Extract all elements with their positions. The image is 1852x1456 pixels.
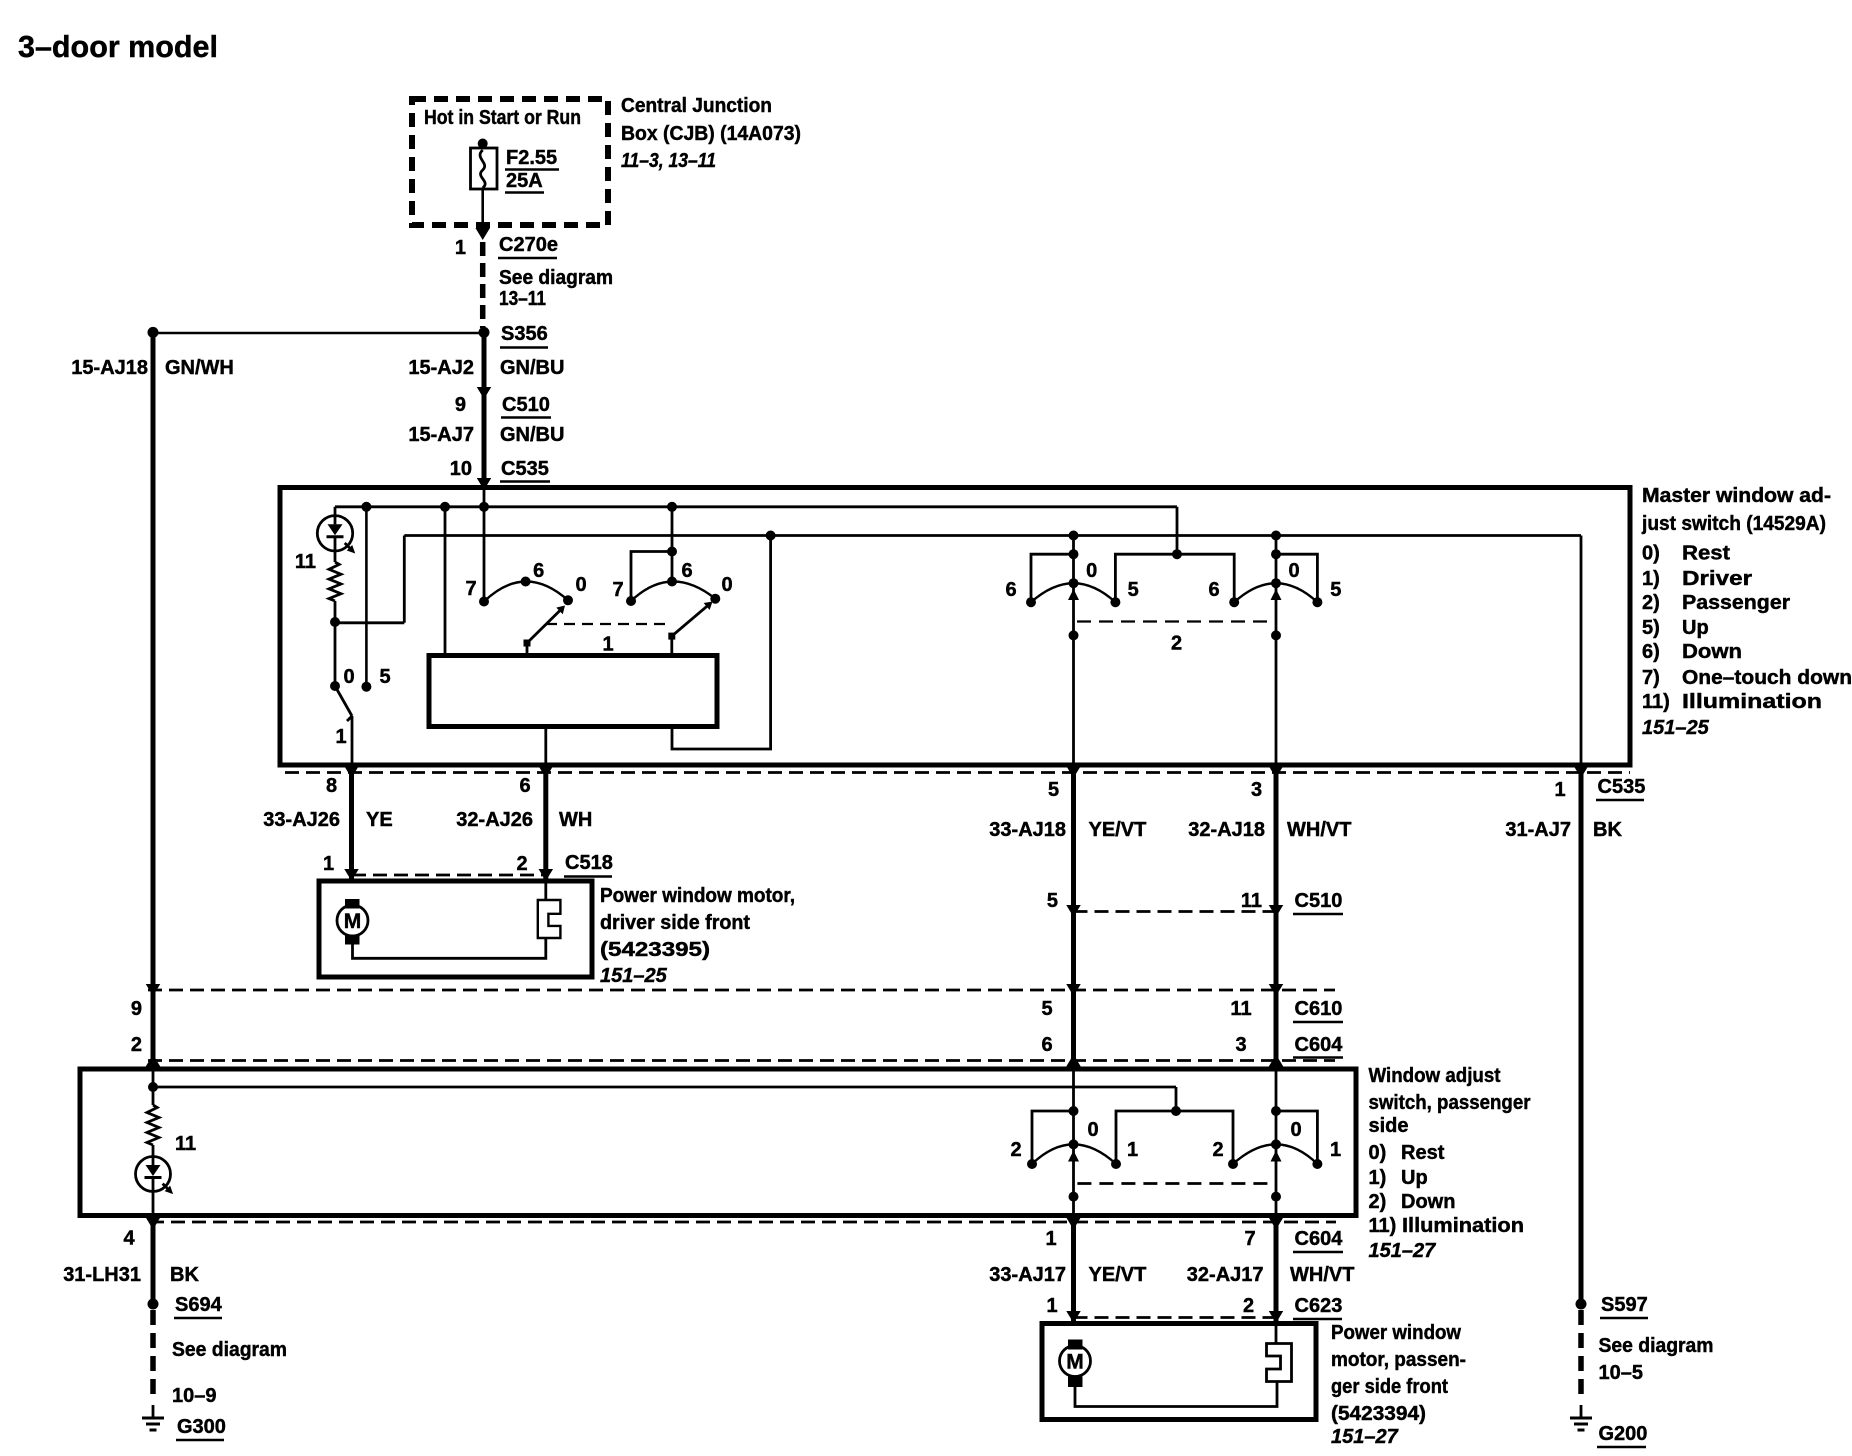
svg-text:2: 2 <box>1171 633 1182 655</box>
svg-text:GN/WH: GN/WH <box>165 357 234 379</box>
svg-text:2: 2 <box>1010 1139 1021 1161</box>
svg-text:See diagram: See diagram <box>1599 1335 1714 1357</box>
svg-text:C604: C604 <box>1295 1228 1344 1250</box>
svg-text:M: M <box>344 910 362 933</box>
svg-text:1: 1 <box>1046 1295 1057 1317</box>
svg-text:5: 5 <box>1048 779 1059 801</box>
svg-text:C535: C535 <box>1598 776 1646 798</box>
svg-text:151–25: 151–25 <box>600 965 668 987</box>
svg-text:15-AJ18: 15-AJ18 <box>71 357 148 379</box>
svg-text:See diagram: See diagram <box>499 267 613 289</box>
svg-text:6: 6 <box>519 775 530 797</box>
svg-text:32-AJ26: 32-AJ26 <box>456 809 533 831</box>
svg-text:1: 1 <box>335 726 346 748</box>
svg-text:32-AJ18: 32-AJ18 <box>1188 819 1265 841</box>
svg-text:8: 8 <box>326 775 337 797</box>
svg-text:0: 0 <box>1290 1119 1301 1141</box>
svg-text:WH: WH <box>559 809 592 831</box>
svg-text:F2.55: F2.55 <box>506 147 557 169</box>
svg-text:ger side front: ger side front <box>1331 1376 1448 1398</box>
svg-text:Passenger: Passenger <box>1682 592 1790 614</box>
svg-text:11): 11) <box>1369 1215 1397 1237</box>
svg-text:2): 2) <box>1642 592 1660 614</box>
svg-text:WH/VT: WH/VT <box>1290 1264 1354 1286</box>
svg-text:0): 0) <box>1369 1142 1387 1164</box>
svg-text:YE/VT: YE/VT <box>1089 1264 1147 1286</box>
svg-text:7: 7 <box>1244 1228 1255 1250</box>
svg-text:33-AJ17: 33-AJ17 <box>989 1264 1066 1286</box>
svg-text:C510: C510 <box>1295 890 1343 912</box>
svg-text:33-AJ26: 33-AJ26 <box>263 809 340 831</box>
svg-text:Illumination: Illumination <box>1402 1215 1524 1237</box>
svg-text:Master window ad-: Master window ad- <box>1642 485 1831 507</box>
svg-text:0: 0 <box>1288 560 1299 582</box>
svg-text:C623: C623 <box>1295 1295 1343 1317</box>
svg-text:2: 2 <box>516 853 527 875</box>
svg-text:11: 11 <box>175 1133 196 1155</box>
svg-text:Driver: Driver <box>1682 568 1752 590</box>
svg-text:GN/BU: GN/BU <box>500 424 564 446</box>
svg-text:7: 7 <box>612 579 623 601</box>
svg-text:3–door model: 3–door model <box>18 29 218 64</box>
svg-text:just switch (14529A): just switch (14529A) <box>1641 513 1826 535</box>
svg-text:switch, passenger: switch, passenger <box>1369 1092 1531 1114</box>
svg-text:7: 7 <box>465 578 476 600</box>
svg-text:3: 3 <box>1235 1034 1246 1056</box>
svg-text:5: 5 <box>1330 579 1341 601</box>
svg-text:side: side <box>1369 1115 1409 1137</box>
svg-text:1: 1 <box>602 634 613 656</box>
svg-text:6: 6 <box>1005 579 1016 601</box>
svg-text:S694: S694 <box>175 1294 223 1316</box>
svg-text:1: 1 <box>1045 1228 1056 1250</box>
svg-text:See diagram: See diagram <box>172 1339 287 1361</box>
svg-text:Down: Down <box>1401 1191 1455 1213</box>
svg-text:S597: S597 <box>1601 1294 1648 1316</box>
svg-text:0: 0 <box>1087 1119 1098 1141</box>
svg-text:6): 6) <box>1642 641 1660 663</box>
svg-text:One–touch down: One–touch down <box>1682 667 1852 689</box>
svg-text:3: 3 <box>1251 779 1262 801</box>
svg-text:1): 1) <box>1642 568 1660 590</box>
svg-text:2: 2 <box>1212 1139 1223 1161</box>
svg-text:10: 10 <box>450 458 472 480</box>
svg-text:C535: C535 <box>501 458 549 480</box>
svg-text:Window adjust: Window adjust <box>1369 1065 1501 1087</box>
svg-text:151–27: 151–27 <box>1331 1426 1399 1448</box>
svg-text:25A: 25A <box>506 170 543 192</box>
svg-text:9: 9 <box>131 998 142 1020</box>
svg-text:Rest: Rest <box>1682 543 1730 565</box>
svg-text:5: 5 <box>1047 890 1058 912</box>
svg-text:0): 0) <box>1642 543 1660 565</box>
svg-text:6: 6 <box>1208 579 1219 601</box>
svg-text:2: 2 <box>1243 1295 1254 1317</box>
svg-text:31-AJ7: 31-AJ7 <box>1505 819 1571 841</box>
svg-text:32-AJ17: 32-AJ17 <box>1187 1264 1264 1286</box>
svg-text:11): 11) <box>1642 691 1670 713</box>
svg-text:Box (CJB) (14A073): Box (CJB) (14A073) <box>621 123 801 145</box>
svg-text:0: 0 <box>721 574 732 596</box>
svg-text:GN/BU: GN/BU <box>500 357 564 379</box>
svg-text:1: 1 <box>1554 779 1565 801</box>
svg-text:11–3, 13–11: 11–3, 13–11 <box>621 150 716 172</box>
svg-text:C510: C510 <box>502 394 550 416</box>
svg-text:6: 6 <box>1041 1034 1052 1056</box>
svg-text:5: 5 <box>379 666 390 688</box>
svg-text:S356: S356 <box>501 323 548 345</box>
svg-text:6: 6 <box>681 560 692 582</box>
svg-text:2: 2 <box>131 1034 142 1056</box>
svg-text:motor, passen-: motor, passen- <box>1331 1349 1466 1371</box>
svg-text:33-AJ18: 33-AJ18 <box>989 819 1066 841</box>
svg-text:1): 1) <box>1369 1167 1387 1189</box>
svg-text:driver side front: driver side front <box>600 912 750 934</box>
svg-text:10–9: 10–9 <box>172 1385 217 1407</box>
svg-text:Power window: Power window <box>1331 1322 1461 1344</box>
svg-text:11: 11 <box>1230 998 1251 1020</box>
svg-text:Rest: Rest <box>1401 1142 1445 1164</box>
svg-text:Power window motor,: Power window motor, <box>600 885 795 907</box>
svg-text:BK: BK <box>170 1264 199 1286</box>
svg-text:10–5: 10–5 <box>1599 1362 1644 1384</box>
svg-text:WH/VT: WH/VT <box>1287 819 1351 841</box>
svg-text:0: 0 <box>575 574 586 596</box>
svg-text:C604: C604 <box>1295 1034 1344 1056</box>
svg-text:Up: Up <box>1401 1167 1428 1189</box>
svg-text:1: 1 <box>455 237 466 259</box>
svg-text:5): 5) <box>1642 617 1660 639</box>
svg-text:151–25: 151–25 <box>1642 717 1710 739</box>
svg-text:Down: Down <box>1682 641 1742 663</box>
svg-text:C518: C518 <box>565 852 613 874</box>
svg-text:1: 1 <box>323 853 334 875</box>
svg-text:5: 5 <box>1128 579 1139 601</box>
svg-text:YE/VT: YE/VT <box>1089 819 1147 841</box>
svg-text:2): 2) <box>1369 1191 1387 1213</box>
svg-text:0: 0 <box>1086 560 1097 582</box>
svg-text:Hot in Start or Run: Hot in Start or Run <box>424 107 581 129</box>
svg-text:C610: C610 <box>1295 998 1343 1020</box>
svg-text:C270e: C270e <box>499 234 558 256</box>
svg-text:31-LH31: 31-LH31 <box>63 1264 141 1286</box>
svg-text:(5423395): (5423395) <box>600 939 710 961</box>
svg-text:11: 11 <box>295 551 316 573</box>
svg-text:(5423394): (5423394) <box>1331 1403 1426 1425</box>
svg-text:6: 6 <box>533 560 544 582</box>
svg-text:0: 0 <box>343 666 354 688</box>
svg-text:M: M <box>1066 1351 1084 1374</box>
svg-text:G300: G300 <box>177 1416 226 1438</box>
svg-text:13–11: 13–11 <box>499 288 546 310</box>
svg-text:Illumination: Illumination <box>1682 691 1822 713</box>
svg-text:11: 11 <box>1241 890 1262 912</box>
svg-text:15-AJ7: 15-AJ7 <box>408 424 474 446</box>
svg-text:4: 4 <box>123 1228 135 1250</box>
svg-text:BK: BK <box>1593 819 1622 841</box>
svg-text:15-AJ2: 15-AJ2 <box>408 357 474 379</box>
svg-text:151–27: 151–27 <box>1369 1240 1437 1262</box>
svg-text:9: 9 <box>455 394 466 416</box>
svg-text:1: 1 <box>1330 1139 1341 1161</box>
svg-text:Up: Up <box>1682 617 1709 639</box>
svg-text:YE: YE <box>366 809 393 831</box>
svg-text:5: 5 <box>1041 998 1052 1020</box>
svg-text:Central Junction: Central Junction <box>621 95 772 117</box>
svg-text:1: 1 <box>1127 1139 1138 1161</box>
svg-text:7): 7) <box>1642 667 1660 689</box>
svg-text:G200: G200 <box>1599 1423 1648 1445</box>
